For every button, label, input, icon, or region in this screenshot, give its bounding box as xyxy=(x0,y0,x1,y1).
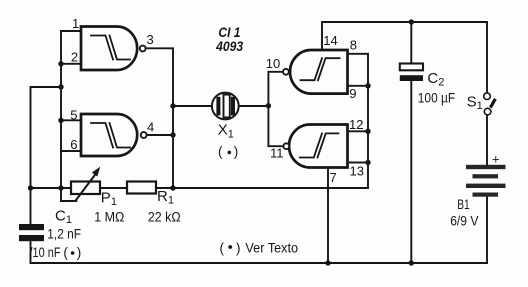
svg-text:4093: 4093 xyxy=(215,38,243,54)
svg-text:100 µF: 100 µF xyxy=(418,91,455,106)
svg-text:): ) xyxy=(77,245,82,260)
svg-text:10: 10 xyxy=(266,56,280,71)
svg-text:4: 4 xyxy=(147,119,154,134)
svg-text:Ver Texto: Ver Texto xyxy=(245,241,298,256)
svg-text:(: ( xyxy=(220,241,225,256)
svg-text:5: 5 xyxy=(70,108,77,123)
svg-text:13: 13 xyxy=(350,164,364,179)
svg-text:): ) xyxy=(236,241,241,256)
svg-text:(: ( xyxy=(218,144,223,159)
svg-text:8: 8 xyxy=(350,38,357,53)
svg-text:+: + xyxy=(492,152,500,167)
svg-text:6: 6 xyxy=(70,137,77,152)
svg-text:12: 12 xyxy=(349,117,363,132)
svg-text:7: 7 xyxy=(330,170,337,185)
svg-text:1 MΩ: 1 MΩ xyxy=(94,210,124,225)
svg-text:(: ( xyxy=(63,245,68,260)
svg-text:1: 1 xyxy=(72,16,79,31)
svg-text:14: 14 xyxy=(323,33,337,48)
svg-text:6/9 V: 6/9 V xyxy=(450,214,478,229)
svg-text:9: 9 xyxy=(349,86,356,101)
svg-text:11: 11 xyxy=(270,146,284,161)
svg-text:3: 3 xyxy=(147,32,154,47)
svg-text:1,2 nF: 1,2 nF xyxy=(47,227,81,242)
svg-text:B1: B1 xyxy=(457,197,470,212)
svg-text:2: 2 xyxy=(71,50,78,65)
svg-text:22 kΩ: 22 kΩ xyxy=(148,210,181,225)
svg-text:/10 nF: /10 nF xyxy=(30,245,61,260)
svg-text:): ) xyxy=(234,144,239,159)
